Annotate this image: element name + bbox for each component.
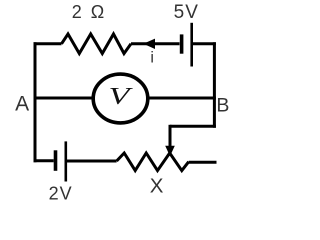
svg-text:i: i: [150, 50, 154, 67]
wire top rail left: [34, 42, 62, 45]
wiper arrowhead: [165, 146, 175, 157]
svg-text:2 Ω: 2 Ω: [72, 2, 106, 22]
wire B down to wiper corner: [170, 125, 216, 128]
svg-text:A: A: [15, 93, 29, 116]
battery 5V short plate (negative): [180, 34, 184, 53]
rheostat X zigzag: [117, 153, 189, 171]
battery 2V long plate (positive): [65, 141, 68, 181]
voltmeter V: [93, 74, 148, 123]
wire bottom left (A down to 2V battery): [34, 159, 54, 162]
svg-text:2V: 2V: [49, 183, 73, 203]
resistor 2 ohm zigzag: [62, 34, 132, 54]
current arrow i: [143, 39, 155, 49]
svg-text:V: V: [109, 84, 133, 110]
wire left vertical (A branch): [34, 42, 37, 162]
wire 5V battery to right vertical: [193, 42, 216, 45]
svg-text:5V: 5V: [174, 2, 199, 23]
wire voltmeter to B: [149, 97, 216, 100]
battery 2V short plate (negative): [54, 150, 58, 171]
battery 5V long plate (positive): [190, 23, 193, 67]
wire resistor to 5V battery: [131, 42, 180, 45]
svg-text:B: B: [216, 94, 229, 116]
wire rheostat right stub (open end): [189, 161, 217, 164]
svg-text:X: X: [150, 174, 164, 197]
wire 2V battery to rheostat: [66, 160, 117, 163]
wire right vertical (B branch): [213, 42, 216, 128]
wiper arrow stem: [169, 125, 172, 147]
wire A to voltmeter: [34, 97, 93, 100]
